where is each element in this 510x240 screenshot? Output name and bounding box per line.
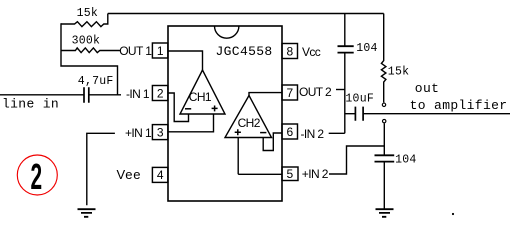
svg-text:2: 2 xyxy=(30,157,42,197)
wire +IN1 to ground xyxy=(87,133,115,205)
wire pin3 to CH1 non-inverting input xyxy=(168,114,214,132)
wire left bus from 15k down to elbow xyxy=(61,23,118,95)
pin 5 box xyxy=(282,167,298,181)
pin 4 box xyxy=(152,167,168,182)
resistor R1 15k (top left, horizontal) xyxy=(61,14,108,27)
svg-text:104: 104 xyxy=(395,153,416,166)
wire cap to -IN1 node xyxy=(89,94,121,96)
svg-text:JGC4558: JGC4558 xyxy=(216,44,273,59)
resistor R3 15k (vertical) xyxy=(381,14,386,103)
node terminal circle lower xyxy=(383,119,386,122)
op-amp CH2 triangle xyxy=(225,96,272,138)
svg-text:Vee: Vee xyxy=(117,167,142,182)
svg-text:5: 5 xyxy=(286,167,293,181)
svg-text:-IN 2: -IN 2 xyxy=(301,127,325,141)
wire pin1 to CH1 output xyxy=(168,51,203,71)
svg-text:-IN 1: -IN 1 xyxy=(126,87,150,101)
wire CH2 output to pin7 xyxy=(249,93,282,96)
svg-text:7: 7 xyxy=(286,86,293,100)
wire pin6 to CH2 inverting input xyxy=(263,133,282,151)
wire line in xyxy=(0,94,84,96)
svg-text:1: 1 xyxy=(157,44,164,58)
ground GND2 xyxy=(376,209,394,217)
svg-text:out: out xyxy=(415,81,439,96)
svg-text:CH1: CH1 xyxy=(189,90,212,104)
wire pin5 to CH2 non-inverting input xyxy=(238,137,282,174)
svg-text:6: 6 xyxy=(286,125,293,139)
wire lower circle to 104 cap xyxy=(383,123,385,155)
CH2 plus sign xyxy=(235,129,241,135)
pin 2 box xyxy=(152,86,168,101)
svg-text:OUT 1: OUT 1 xyxy=(119,44,152,58)
node terminal circle upper xyxy=(382,103,385,106)
svg-text:CH2: CH2 xyxy=(238,116,261,130)
notch xyxy=(215,26,239,38)
svg-text:to amplifier: to amplifier xyxy=(410,98,508,113)
wire -IN2 to node xyxy=(329,132,345,134)
pin 8 box xyxy=(282,44,298,59)
page number circle xyxy=(17,155,57,195)
pin 1 box xyxy=(152,43,168,58)
svg-text:4,7uF: 4,7uF xyxy=(78,75,114,88)
pin 3 box xyxy=(152,125,168,140)
ground GND1 xyxy=(78,209,96,217)
CH2 minus sign xyxy=(260,132,266,134)
resistor R2 300k (horizontal) xyxy=(61,48,121,53)
capacitor C3 10uF xyxy=(355,107,363,121)
svg-text:OUT 2: OUT 2 xyxy=(299,85,332,99)
svg-text:4: 4 xyxy=(157,168,164,182)
svg-text:+IN 1: +IN 1 xyxy=(125,126,152,140)
svg-text:2: 2 xyxy=(157,86,164,100)
stray dot xyxy=(452,213,454,215)
svg-text:line in: line in xyxy=(2,97,59,112)
wire output to amplifier xyxy=(363,113,510,115)
svg-text:+IN 2: +IN 2 xyxy=(302,167,329,181)
svg-text:15k: 15k xyxy=(77,7,98,20)
wire node to 10uF xyxy=(345,113,356,115)
capacitor C2 104 (top right) xyxy=(338,14,354,53)
svg-text:15k: 15k xyxy=(388,65,409,78)
wire right node vertical (OUT2/-IN2/10uF junction) xyxy=(344,53,346,134)
op-amp CH1 triangle xyxy=(180,70,225,114)
svg-text:104: 104 xyxy=(356,42,377,55)
wire top rail xyxy=(108,13,384,15)
capacitor C1 4.7uF xyxy=(84,87,89,103)
svg-text:3: 3 xyxy=(157,125,164,139)
svg-text:8: 8 xyxy=(286,44,293,58)
capacitor C4 104 (bottom right) xyxy=(375,155,395,208)
CH1 plus sign xyxy=(212,106,218,112)
wire pin2 to CH1 inverting input xyxy=(168,93,189,122)
wire OUT2 to node xyxy=(336,89,345,91)
wire +IN2 branch xyxy=(329,146,384,174)
svg-text:10uF: 10uF xyxy=(345,92,374,105)
pin 6 box xyxy=(282,124,298,139)
svg-text:300k: 300k xyxy=(72,35,101,48)
svg-text:Vcc: Vcc xyxy=(302,45,321,59)
CH1 minus sign xyxy=(185,108,191,110)
pin 7 box xyxy=(282,85,298,100)
op-amp U1 body JGC4558 xyxy=(168,26,282,201)
